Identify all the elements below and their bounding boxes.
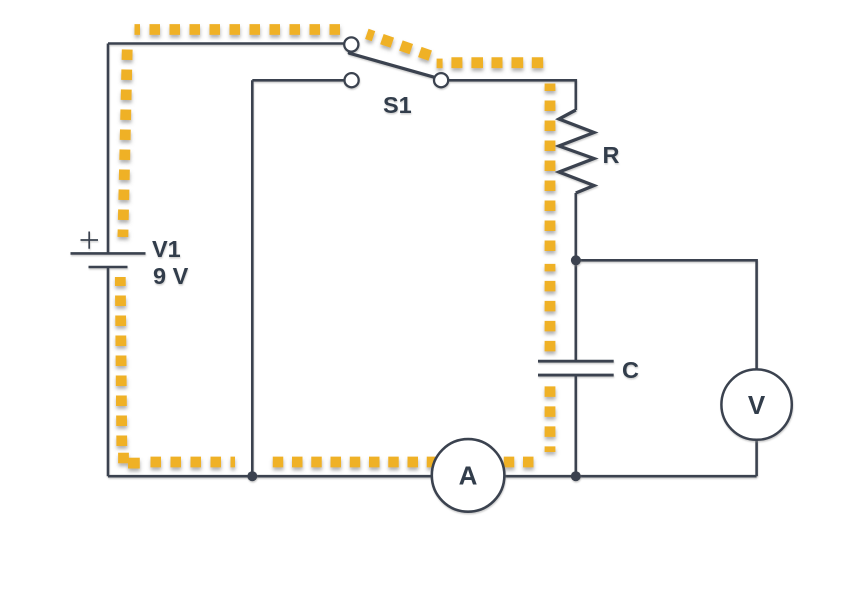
wire middle branch vertical <box>251 80 254 476</box>
resistor R zigzag <box>559 110 594 193</box>
wire left vertical lower <box>107 267 110 476</box>
svg-text:V1: V1 <box>152 236 181 262</box>
dash run: bottom row left of node <box>150 457 235 468</box>
svg-text:9 V: 9 V <box>153 263 189 289</box>
dash run: right column above node <box>545 84 556 252</box>
node below resistor <box>571 255 581 265</box>
wire middle branch horizontal <box>252 79 344 82</box>
ammeter A circle <box>432 439 505 512</box>
wire left vertical upper <box>107 44 110 254</box>
wire capacitor to bottom <box>574 375 577 476</box>
svg-text:C: C <box>622 357 639 383</box>
dash run: switch diagonal explicit dashes <box>367 34 430 56</box>
wire voltmeter to bottom <box>755 440 758 476</box>
dash run: bottom row right of node <box>268 457 534 468</box>
battery V1 minus plate <box>89 266 128 269</box>
switch S1 terminal bottom left <box>345 73 359 87</box>
svg-text:A: A <box>459 461 478 491</box>
wire top horizontal <box>108 42 344 45</box>
wire resistor to capacitor <box>574 193 577 361</box>
dash run: right column below capacitor <box>545 386 556 452</box>
switch S1 terminal right <box>434 73 448 87</box>
node bottom middle <box>247 471 257 481</box>
node bottom right <box>571 471 581 481</box>
dash run: post-switch horizontal explicit dashes <box>451 57 543 68</box>
wire voltmeter branch top <box>576 260 757 369</box>
capacitor C top plate <box>538 360 614 363</box>
svg-text:R: R <box>603 142 620 168</box>
svg-text:V: V <box>748 390 766 420</box>
switch S1 terminal top left <box>344 37 358 51</box>
dash run: left column below battery <box>120 277 122 446</box>
dash corner bottom-left horizontal bit <box>128 458 140 469</box>
current flow dashed highlight path <box>120 30 550 464</box>
wire bottom right <box>505 475 756 478</box>
battery plus sign <box>81 232 99 249</box>
battery V1 plus plate <box>71 252 146 255</box>
dash partial at switch end <box>437 59 443 69</box>
dash run: right column node to capacitor <box>545 264 556 352</box>
capacitor C bottom plate <box>538 374 614 377</box>
switch S1 blade <box>349 53 437 78</box>
dash corner bottom-left vertical bit <box>118 453 129 464</box>
svg-text:S1: S1 <box>383 92 412 118</box>
dash run: top row <box>135 24 350 35</box>
wire switch to right corner <box>448 80 576 110</box>
wire bottom left <box>108 475 431 478</box>
dash run: left column above battery <box>123 42 128 237</box>
voltmeter V circle <box>721 369 791 439</box>
